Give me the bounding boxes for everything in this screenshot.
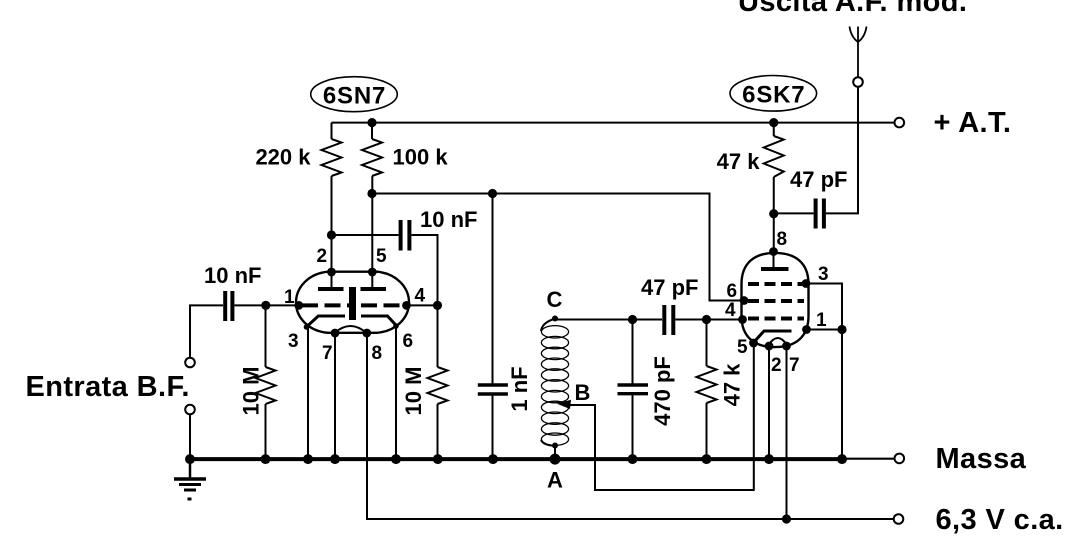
wire 47pF to antenna line	[826, 87, 858, 214]
svg-text:100 k: 100 k	[393, 145, 449, 170]
wire 220k top corner	[331, 123, 333, 139]
6SN7 pin5 dot	[368, 268, 377, 277]
6SK7 pin1 dot	[802, 325, 811, 334]
node dot +AT/47k	[769, 118, 778, 127]
wire +A.T. rail	[332, 122, 895, 124]
svg-text:+ A.T.: + A.T.	[934, 107, 1012, 139]
terminal input upper	[185, 358, 195, 368]
wire cap to pin1	[234, 304, 299, 306]
svg-text:6,3 V c.a.: 6,3 V c.a.	[936, 504, 1064, 536]
6SN7 pin8 dot	[362, 329, 371, 338]
terminal massa	[895, 454, 905, 464]
resistor 10 M left	[265, 305, 267, 367]
svg-text:5: 5	[737, 337, 748, 358]
node dot 470pF top	[628, 315, 637, 324]
6SN7 pin6 exit dot	[393, 323, 399, 329]
massa bus	[186, 457, 842, 461]
6SK7 plate bar	[761, 267, 789, 271]
svg-text:2: 2	[771, 355, 782, 376]
massa dot pin3	[303, 454, 313, 464]
wire node 100k-bottom to 6SK7 grid pin6	[372, 194, 744, 301]
6SK7 grid dashes row2	[748, 299, 804, 303]
svg-text:47 pF: 47 pF	[790, 167, 847, 192]
wire 6SK7 pin3/pin1 right	[806, 284, 842, 330]
6SK7 plate lead	[773, 252, 775, 268]
svg-text:3: 3	[818, 264, 829, 285]
6SN7 pin4 dot	[402, 301, 411, 310]
6SK7 pin5 dot	[749, 339, 758, 348]
wire pin8 heater to 6.3V rail	[367, 333, 894, 519]
ground symbol	[189, 459, 192, 478]
wire pin7 down	[334, 333, 336, 459]
massa dot 47k mid	[702, 454, 712, 464]
massa dot 1nF	[488, 454, 498, 464]
coil bottom dot	[552, 443, 558, 449]
node dot 10M left top	[261, 301, 270, 310]
terminal antenna	[853, 77, 863, 87]
6SK7 pin3 dot	[802, 279, 811, 288]
svg-text:1: 1	[816, 310, 827, 331]
6SN7 grid dashes	[302, 303, 353, 307]
arrow tap B	[557, 400, 571, 409]
massa dot 6SK7 pin2	[764, 454, 774, 464]
svg-text:B: B	[575, 380, 591, 405]
svg-text:4: 4	[725, 300, 736, 321]
svg-text:C: C	[547, 287, 563, 312]
wire 6SK7 pin7 down	[786, 346, 788, 519]
svg-text:47 pF: 47 pF	[641, 275, 698, 300]
svg-text:8: 8	[777, 229, 788, 250]
svg-text:47 k: 47 k	[717, 149, 761, 174]
svg-text:3: 3	[288, 331, 299, 352]
node dot C	[552, 316, 558, 322]
6SN7 heater arc	[335, 326, 367, 333]
6SK7 heater arc	[769, 338, 788, 345]
resistor 10 M right	[437, 305, 439, 367]
svg-text:1 nF: 1 nF	[507, 366, 532, 411]
svg-text:Uscita A.F. mod.: Uscita A.F. mod.	[738, 0, 967, 18]
svg-text:5: 5	[376, 246, 387, 267]
svg-text:470 pF: 470 pF	[650, 356, 675, 426]
svg-text:6: 6	[727, 281, 738, 302]
wire 220k to pin2	[331, 176, 333, 272]
node dot grid tap	[327, 230, 336, 239]
terminal 6,3V	[894, 514, 904, 524]
terminal input lower	[185, 405, 195, 415]
6SN7 cathode left	[306, 316, 345, 327]
svg-text:10 M: 10 M	[401, 367, 426, 416]
6SN7 plate left	[318, 287, 344, 291]
wire input top	[190, 305, 223, 357]
wire 6SK7 pin2 down	[768, 346, 770, 459]
wire 100k to pin5	[371, 176, 373, 272]
wire plate node to 47pF right	[774, 212, 814, 214]
svg-text:6SN7: 6SN7	[323, 83, 386, 110]
node dot pin1 wire	[837, 325, 846, 334]
node dot 47k plate bottom	[769, 209, 778, 218]
massa dot pin6	[391, 454, 401, 464]
svg-text:Entrata B.F.: Entrata B.F.	[26, 371, 190, 403]
massa dot input	[185, 454, 195, 464]
wire 100k top	[371, 123, 373, 139]
6SK7 cathode	[754, 331, 792, 343]
6SN7 shield bar	[349, 287, 356, 320]
6SN7 pin2 dot	[327, 268, 336, 277]
6SN7 pin1 dot	[294, 301, 303, 310]
6SN7 plate right	[361, 287, 387, 291]
massa dot coil A	[550, 454, 561, 465]
antenna symbol	[857, 27, 859, 78]
capacitor 1 nF	[478, 383, 508, 386]
oval label 6SK7	[730, 76, 817, 112]
svg-text:A: A	[547, 468, 563, 493]
wire 1nF branch	[492, 194, 494, 384]
svg-text:7: 7	[322, 343, 333, 364]
svg-text:1: 1	[284, 287, 295, 308]
svg-text:4: 4	[415, 286, 426, 307]
6SK7 pin8 dot	[769, 247, 778, 256]
6SN7 plate leads	[331, 272, 333, 287]
wire 10nF out	[411, 235, 437, 305]
svg-text:8: 8	[372, 343, 383, 364]
capacitor 47 pF (mid)	[662, 305, 666, 335]
svg-text:6: 6	[403, 331, 414, 352]
capacitor 470 pF branch	[632, 320, 634, 384]
massa dot 10M left	[261, 454, 271, 464]
resistor 47 k (mid)	[706, 320, 708, 367]
resistor 220 k	[322, 139, 342, 176]
6SN7 pin3 exit dot	[304, 324, 310, 330]
6SN7 cathode right	[361, 316, 397, 326]
node dot 100k bottom	[367, 189, 376, 198]
capacitor 47 pF (right)	[814, 199, 818, 229]
6SK7 pin4 dot	[738, 315, 747, 324]
svg-text:10 nF: 10 nF	[204, 263, 261, 288]
massa dot 6SK7 pin1	[837, 454, 847, 464]
wire pin4 to node	[407, 304, 438, 306]
capacitor 10 nF (top)	[399, 220, 403, 251]
terminal +A.T.	[895, 118, 905, 128]
wire lower terminal to massa	[189, 414, 191, 459]
massa dot 470pF	[628, 454, 638, 464]
svg-text:2: 2	[317, 246, 328, 267]
wire pin6 down	[395, 326, 397, 459]
6SK7 grid dashes row1	[748, 282, 804, 286]
massa dot 10M right	[433, 454, 443, 464]
6SK7 pin6 dot	[740, 296, 749, 305]
svg-text:10 nF: 10 nF	[420, 207, 477, 232]
6SK7 pin2 dot	[765, 342, 774, 351]
svg-text:Massa: Massa	[936, 443, 1027, 475]
node dot +AT/100k	[367, 118, 376, 127]
tube 6SK7 envelope	[742, 253, 809, 347]
wire tap B loop to 6SK7 pin5	[565, 344, 754, 491]
wire pin3 down	[307, 327, 309, 459]
svg-text:220 k: 220 k	[255, 145, 311, 170]
resistor 100 k	[362, 139, 382, 176]
capacitor 10 nF (input)	[223, 291, 227, 321]
6SK7 grid dashes row3	[748, 317, 804, 321]
massa dot pin7	[330, 454, 340, 464]
svg-text:47 k: 47 k	[720, 363, 745, 407]
resistor 47 k (6SK7 plate)	[773, 123, 775, 136]
node dot 6.3V heater	[782, 514, 791, 523]
wire C node to 47pF	[555, 319, 662, 321]
svg-text:6SK7: 6SK7	[742, 82, 805, 109]
svg-text:7: 7	[789, 355, 800, 376]
tube 6SN7 envelope	[296, 272, 409, 333]
coil L	[541, 319, 555, 332]
svg-text:10 M: 10 M	[239, 367, 264, 416]
node dot 1nF top	[488, 189, 497, 198]
node dot 10nF/10M/pin4	[433, 301, 442, 310]
6SN7 pin7 dot	[331, 329, 340, 338]
oval label 6SN7	[311, 77, 398, 112]
6SK7 pin7 dot	[782, 342, 791, 351]
wire grid tap horizontal	[332, 234, 399, 236]
node dot 47k mid top	[702, 315, 711, 324]
